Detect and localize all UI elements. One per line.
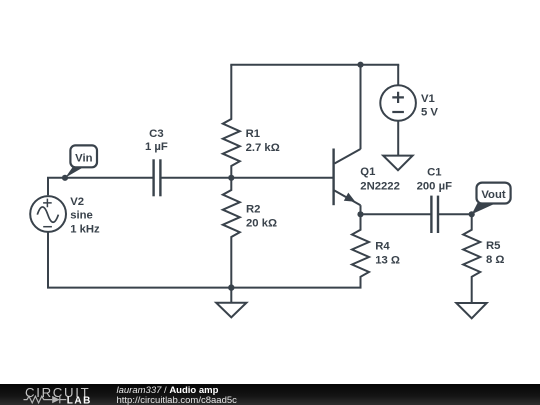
svg-text:sine: sine: [70, 210, 93, 222]
wire emitter lead: [360, 205, 362, 214]
svg-text:Q1: Q1: [360, 166, 375, 178]
transistor Q1: [334, 149, 361, 206]
svg-text:1 kHz: 1 kHz: [70, 223, 100, 235]
resistor R5: [463, 214, 480, 303]
svg-text:2.7 kΩ: 2.7 kΩ: [246, 142, 280, 154]
svg-text:R4: R4: [375, 240, 390, 252]
voltage source V1: [380, 85, 416, 121]
resistor R1: [223, 65, 240, 178]
svg-text:8 Ω: 8 Ω: [486, 254, 504, 266]
svg-text:13 Ω: 13 Ω: [375, 255, 400, 267]
wire ground stem: [230, 288, 232, 303]
svg-text:200 µF: 200 µF: [417, 180, 452, 192]
wire top rail: [231, 64, 398, 66]
wire V1 bottom lead: [397, 121, 399, 156]
wire collector riser: [360, 65, 362, 150]
footer credit line: [117, 386, 237, 405]
node Vout: [469, 211, 475, 217]
node base junction: [228, 175, 234, 181]
svg-text:V2: V2: [70, 196, 84, 208]
wire C1 to Vout: [438, 213, 472, 215]
svg-text:R2: R2: [246, 203, 260, 215]
footer bar: [0, 384, 540, 405]
label Vout flag: [472, 183, 511, 215]
svg-text:C3: C3: [149, 128, 163, 140]
label Vin flag: [65, 145, 97, 177]
svg-text:C1: C1: [427, 166, 441, 178]
svg-text:R5: R5: [486, 240, 500, 252]
capacitor C1: [431, 196, 438, 233]
wire bottom rail: [48, 232, 361, 288]
svg-text:2N2222: 2N2222: [360, 180, 400, 192]
svg-text:R1: R1: [246, 128, 260, 140]
svg-text:LAB: LAB: [67, 396, 92, 405]
wire input rail right of C3: [160, 177, 231, 179]
node collector junction: [357, 62, 363, 68]
svg-text:Vout: Vout: [481, 189, 505, 201]
ground under R5: [456, 303, 486, 318]
wire emitter to C1: [361, 213, 432, 215]
voltage source V2: [30, 196, 66, 232]
node ground junction: [228, 284, 234, 290]
wire base: [231, 177, 334, 179]
svg-text:V1: V1: [421, 93, 435, 105]
node Vin: [62, 175, 68, 181]
resistor R4: [352, 214, 369, 287]
node emitter junction: [357, 211, 363, 217]
resistor R2: [223, 178, 240, 288]
capacitor C3: [154, 159, 161, 196]
svg-text:5 V: 5 V: [421, 107, 438, 119]
wire input rail left: [48, 178, 154, 195]
wire V1 top lead: [397, 65, 399, 86]
ground under V1: [383, 156, 412, 171]
CircuitLab logo: [0, 384, 110, 405]
ground main: [216, 303, 246, 318]
svg-text:20 kΩ: 20 kΩ: [246, 218, 277, 230]
svg-text:1 µF: 1 µF: [145, 141, 168, 153]
svg-text:Vin: Vin: [75, 153, 92, 165]
